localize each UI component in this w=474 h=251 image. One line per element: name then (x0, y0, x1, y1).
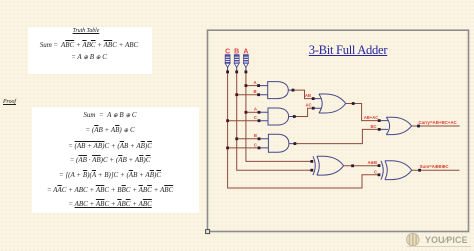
connector pin A (245, 71, 248, 74)
svg-text:C: C (374, 169, 377, 174)
pin AND3 out (294, 142, 297, 145)
wire AND3 output to OR2 input 2 (295, 129, 379, 143)
pin AND2 in A (258, 111, 261, 114)
pin AND1 in A (257, 84, 260, 87)
pin XOR2 in 2 (378, 173, 381, 176)
pin XOR2 in 1 (378, 164, 381, 167)
svg-text:C: C (254, 142, 257, 147)
junction carry out (417, 125, 420, 128)
junction A/AND1 (245, 84, 248, 87)
junction A/AND2 (245, 111, 248, 114)
input port A (243, 49, 248, 72)
AND gate U1 (inputs A,B) (253, 80, 293, 99)
wire OR1 output to OR2 input 1 (346, 104, 380, 121)
wire B to AND3 input B (237, 138, 259, 140)
XOR gate U6 (A xor B) (313, 156, 344, 175)
pin AND1 in B (257, 93, 260, 96)
AND gate U3 (inputs B,C) (254, 133, 295, 152)
connector pin C (226, 71, 229, 74)
svg-text:AC: AC (305, 102, 311, 107)
wire AND2 output to OR1 input 2 (294, 108, 313, 116)
wire AND1 output to OR1 input 1 (293, 90, 313, 99)
input port B (234, 49, 239, 72)
pin OR1 in 2 (312, 107, 315, 110)
wire XOR1 output to XOR2 input 1 (344, 165, 379, 167)
youspice watermark text (425, 235, 468, 245)
svg-text:Carry=AB+BC+AC: Carry=AB+BC+AC (419, 120, 458, 125)
pin AND3 in B (258, 137, 261, 140)
proof label (3, 99, 16, 105)
label Carry=AB+BC+AC (419, 120, 458, 125)
pin AND3 in C (258, 147, 261, 150)
pin OR2 in 1 (378, 119, 381, 122)
wire net C vertical and to XOR2 lower input (228, 72, 379, 188)
pin AND2 in C (258, 119, 261, 122)
youspice logo globe (407, 233, 419, 245)
XOR gate U7 (sum output) (367, 160, 411, 179)
wire B to AND1 input B (237, 94, 259, 96)
connector pin B (235, 71, 238, 74)
junction C/AND3 (226, 147, 229, 150)
label Sum=AxorBxorC (420, 164, 450, 169)
svg-text:AB+AC: AB+AC (364, 115, 379, 120)
junction sum out (418, 169, 421, 172)
junction XOR1 out (351, 164, 354, 167)
svg-text:A: A (254, 107, 257, 112)
schematic border frame (208, 30, 469, 231)
svg-text:BC: BC (371, 124, 377, 129)
selection handle bottom-left (206, 230, 210, 234)
wire A to AND2 input A (246, 111, 259, 113)
pin AND1 out (292, 89, 295, 92)
pin OR2 in 2 (378, 128, 381, 131)
svg-text:Sum=A⊕B⊕C: Sum=A⊕B⊕C (420, 164, 450, 169)
input port C (225, 49, 230, 72)
junction C/AND2 (226, 119, 229, 122)
svg-text:B: B (254, 133, 257, 138)
svg-text:AB: AB (305, 93, 311, 98)
pin AND2 out (293, 115, 296, 118)
wire sum output (412, 169, 460, 171)
wire A to AND1 input A (246, 85, 259, 87)
svg-text:A⊕B: A⊕B (367, 160, 377, 165)
wire carry output (412, 125, 460, 127)
pin OR1 in 1 (312, 97, 315, 100)
proof white box (32, 107, 199, 213)
svg-text:B: B (253, 89, 256, 94)
junction B/AND3 (235, 137, 238, 140)
junction OR1 out (352, 102, 355, 105)
title 3-Bit Full Adder (298, 43, 398, 58)
junction B/AND1 (235, 93, 238, 96)
pin XOR1 in A (310, 160, 313, 163)
svg-text:C: C (254, 115, 257, 120)
svg-text:A: A (253, 80, 256, 85)
truth table white box (28, 27, 152, 74)
OR gate U4 (AB + AC) (305, 93, 346, 113)
wire C to AND2 input C (228, 120, 259, 122)
pin XOR1 in B (310, 169, 313, 172)
wire net B vertical to XOR1 lower input (237, 72, 312, 170)
wire net A vertical to XOR1 upper input (246, 72, 312, 161)
wire C to AND3 input C (228, 147, 259, 149)
OR gate U5 (carry output) (364, 115, 412, 135)
AND gate U2 (inputs A,C) (254, 107, 294, 125)
